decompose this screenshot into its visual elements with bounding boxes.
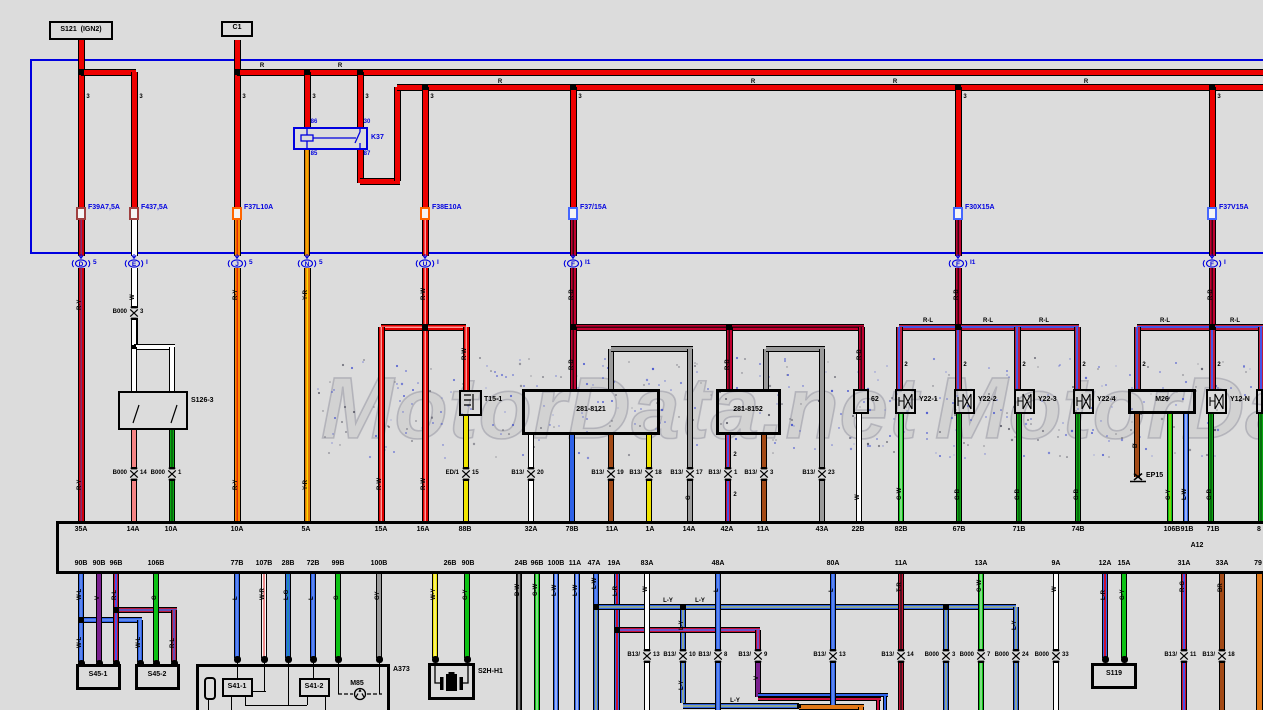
bus top label 42A at x727 (721, 526, 734, 533)
label Y22-3 (1038, 396, 1057, 403)
wire code L 72B (309, 596, 315, 600)
gray wire down to 14A (687, 349, 693, 521)
pin label 2 42A b (733, 492, 736, 498)
bus bottom label 47A at x594 (588, 560, 601, 567)
bus top label 88B at x465 (459, 526, 472, 533)
bus bottom label 100B at x556 (548, 560, 565, 567)
wire 11A brown below 8121 (608, 435, 614, 521)
svg-text:U: U (423, 261, 428, 268)
junction F37V column (1209, 324, 1215, 330)
splice B13/ x14 label (881, 652, 894, 658)
wire tip into S45 at x116 (113, 660, 120, 667)
valve symbol inside Y22-3 (1014, 389, 1035, 414)
splice B13/ x10 number (689, 652, 696, 658)
wire code T-R 11A (897, 582, 903, 592)
wire 83A white (644, 574, 650, 710)
junction 90B branch (78, 617, 84, 623)
wire down into T62 (858, 327, 865, 389)
wire tip 100B (376, 656, 383, 663)
splice B000 x14 (128, 467, 140, 481)
label F30X15A (965, 204, 995, 211)
wire 90B blue into S45-1 (78, 620, 84, 662)
wire code R-G 31A (1180, 581, 1186, 592)
wire 48A blue (715, 574, 721, 710)
connector I1 at F30X column (947, 254, 969, 270)
splice ED/1 x15 (460, 467, 472, 481)
bus bottom label 11A at x901 (895, 560, 907, 567)
splice B000 x24 number (1022, 652, 1029, 658)
wire below fuse F37V (dark red) (1209, 218, 1216, 256)
wire tip into S45 at x156 (153, 660, 160, 667)
wire 11A blue-white (574, 574, 580, 710)
label Y22-4 (1097, 396, 1116, 403)
bus top label 67B at x959 (953, 526, 966, 533)
wire 82B green below valve (898, 414, 904, 521)
bus top label 10A at x237 (231, 526, 244, 533)
wire label L-Y 2 (695, 598, 705, 604)
wire red horizontal to S45-2 (116, 607, 177, 613)
wire code L 77B (233, 596, 239, 600)
motor box M26 (1128, 389, 1196, 414)
wire code L-Y 683a (679, 620, 685, 630)
wire F37 feed down to fuse (570, 87, 577, 209)
wire to relay pin 86 (304, 72, 311, 127)
bus bottom label 107B at x264 (256, 560, 273, 567)
splice B13/ x8 number (724, 652, 727, 658)
module box 281-8121 (522, 389, 660, 435)
splice B13/ x17 number (696, 470, 703, 476)
wire label R-L 3 (1039, 318, 1049, 324)
pin label 3 at x237 (242, 94, 245, 100)
bus top label 91B at x1187 (1181, 526, 1194, 533)
wire 96B red into S45-1 core (115, 610, 117, 662)
splice B13/ x11 label (1164, 652, 1177, 658)
wire code Y-R col5A a (303, 290, 309, 300)
wire 47A blue upper (593, 574, 599, 605)
wire 78B blue below 8121 (569, 435, 575, 521)
connector E at 14A column label (146, 259, 148, 266)
partial box right edge (1256, 389, 1263, 414)
wire 26B yellow into S2H-H1 (432, 574, 438, 658)
splice B13/ x17 label (670, 470, 683, 476)
bus top label 22B at x858 (852, 526, 865, 533)
wire R-L down to Y22-1 blue core (898, 327, 900, 389)
wire 11A maroon (898, 574, 904, 710)
wire branch down to fuse F437 (131, 72, 138, 209)
label M26 (1155, 396, 1169, 403)
T15-1 inner marks (459, 390, 482, 416)
wire 10A green below S126-3 (169, 430, 175, 521)
bus bottom label 33A at x1222 (1216, 560, 1229, 567)
label S2H-H1 (478, 668, 503, 675)
relay box K37 (293, 127, 368, 150)
junction C1 bus (234, 69, 240, 75)
horn symbol inside S2H-H1 (428, 663, 475, 700)
wire pink down at 758 (755, 630, 761, 651)
splice B13/ x18 brown label (1202, 652, 1215, 658)
wire to T15-1 box (463, 327, 470, 390)
wire tip 26B (432, 656, 439, 663)
wire code G 106B (152, 595, 158, 600)
wire label R-L 1 (923, 318, 933, 324)
splice B13/ x17 (684, 467, 696, 481)
wire code L 80A (829, 588, 835, 592)
wire pink down at 758 core (757, 630, 759, 651)
connector box C1 (221, 21, 253, 37)
wire F30X feed down to fuse (955, 87, 962, 209)
wire 96B green-white (534, 574, 540, 710)
wire 11A maroon crossing L-Y (898, 600, 904, 614)
label F38E10A (432, 204, 462, 211)
wire F37 connector to junction (570, 268, 577, 327)
bus top label 5A at x306 (302, 526, 311, 533)
wire 100B into A373 (376, 574, 382, 658)
label S121 (IGN2) (60, 26, 101, 33)
splice B000 x1 label (151, 470, 165, 476)
junction F37 feed (570, 84, 576, 90)
wire 83A white crossing L-Y (644, 600, 650, 614)
wire 47A blue-yellow lower (593, 607, 599, 710)
watermark MotorData.net right (935, 359, 1263, 459)
svg-text:F: F (571, 261, 575, 268)
splice B13/ x8 (712, 649, 724, 663)
wire tip 12A (1102, 656, 1109, 663)
relay pin 86 (311, 119, 318, 125)
svg-text:F: F (1210, 261, 1214, 268)
wire 12A blue-red into S119 core (1104, 574, 1106, 658)
wire 14A pink below S126-3 (131, 430, 137, 521)
wire 31A red-blue core (1183, 574, 1185, 710)
bus bottom label 19A at x614 (608, 560, 621, 567)
junction S121 branch (78, 69, 84, 75)
wire code G 99B (334, 595, 340, 600)
valve box Y12-N (1206, 389, 1227, 414)
valve symbol inside Y22-4 (1073, 389, 1094, 414)
wire 12A blue-red into S119 (1102, 574, 1108, 658)
wire code R-L branch (170, 638, 176, 648)
wire 80A blue crossing L-Y (830, 600, 836, 614)
pin line below rounded box (208, 698, 209, 710)
junction relay 86 feed (304, 69, 310, 75)
wire R-L down to Y22-4 blue core (1076, 327, 1078, 389)
splice B000 x33 number (1062, 652, 1069, 658)
valve symbol inside Y22-1 (895, 389, 916, 414)
white wire left branch into S126-3 (131, 347, 137, 391)
wire pink pair corner down (876, 700, 880, 710)
junction 96B branch (113, 607, 119, 613)
connector I1 at F37 column (562, 254, 584, 270)
label Y22-2 (978, 396, 997, 403)
bus bottom label 96B at x537 (531, 560, 544, 567)
splice B13/ x3 number (770, 470, 773, 476)
inner wire 99B to M85 (338, 658, 339, 694)
wire code W-Y 26B (431, 588, 437, 600)
splice B000 x24 (1010, 649, 1022, 663)
wire code L-W 11A (573, 585, 579, 596)
wire code R-B into T62 (857, 349, 863, 360)
junction F30X feed (955, 84, 961, 90)
relay pin 87 (364, 151, 371, 157)
wire 32A white below 8121 (528, 435, 534, 521)
bus bottom label 26B at x450 (444, 560, 457, 567)
wire 1A yellow below 8121 (646, 435, 652, 521)
splice B000 x1 number (178, 470, 181, 476)
bus bottom label 79 at x1258 (1254, 560, 1262, 567)
label Y12-N (1230, 396, 1250, 403)
splice B13/ x1 label (708, 470, 721, 476)
junction L-Y orange (797, 704, 801, 708)
bus bottom label 83A at x647 (641, 560, 654, 567)
wire 19A blue-red lower (614, 630, 620, 710)
bus bottom label 31A at x1184 (1178, 560, 1191, 567)
ground symbol EP15 (1129, 473, 1147, 484)
wire code V 90B (95, 596, 101, 600)
relay K37 coil and contact (293, 127, 368, 150)
svg-text:N: N (305, 261, 310, 268)
gray wire up from 8152 (763, 349, 769, 389)
splice B13/ x13 second label (813, 652, 826, 658)
wire R-L horizontal Y22 group (899, 324, 1079, 331)
wire F37V feed down to fuse (1209, 87, 1216, 209)
wire tip 15A (1121, 656, 1128, 663)
label A373 (393, 666, 410, 673)
splice B000 x7 (975, 649, 987, 663)
splice B13/ x23 label (802, 470, 815, 476)
junction white split (132, 345, 136, 349)
wire 96B red into S45-1 (113, 610, 119, 662)
splice B13/ x20 (525, 467, 537, 481)
bus top label 71B at x1213 (1207, 526, 1220, 533)
fuse F30X 15A (953, 207, 963, 220)
splice B13/ x23 number (828, 470, 835, 476)
pin label 2 Y22-1 (904, 362, 907, 368)
wire code L-Y 683b (679, 680, 685, 690)
wire code L-W 47A (592, 578, 598, 589)
bus bottom label 12A at x1105 (1099, 560, 1112, 567)
label F37/15A (580, 204, 607, 211)
connector N at 5A column label (319, 259, 323, 266)
connector D at 35A column label (93, 259, 97, 266)
gray wire up from 8121 (608, 349, 614, 389)
label F37V15A (1219, 204, 1249, 211)
relay pin 85 (311, 151, 318, 157)
pin label 3 at x360 (365, 94, 368, 100)
wire 67B green below valve (956, 414, 962, 521)
wire R-L down to M26 (1134, 327, 1141, 389)
bus bottom label 11A at x575 (569, 560, 581, 567)
wire 22B white below T62 (856, 414, 862, 521)
splice B000 x1 (166, 467, 178, 481)
wire main red bus lower (397, 84, 1263, 91)
splice B13/ x9 label (738, 652, 751, 658)
wire code W-L 90B a (77, 589, 83, 600)
inner wire 77B to S41-1 (237, 658, 238, 678)
wire 19A blue-red upper core (616, 574, 618, 628)
pin label 3 at x307 (312, 94, 315, 100)
wire code R-B col F37 (569, 289, 575, 300)
wire code R-W T15-1 (462, 348, 468, 360)
splice B13/ x10 (677, 649, 689, 663)
wire R-L down to Y12-N (1209, 327, 1216, 389)
wire L-Y down at 683 (680, 607, 686, 703)
wire code L 48A (714, 588, 720, 592)
wire L-Y horizontal (596, 604, 1016, 610)
wire 79 orange right edge (1256, 574, 1263, 710)
wire R-L down at right edge blue core (1260, 327, 1262, 389)
wire code W 22B (855, 494, 861, 500)
wire R-L down at right edge (1258, 327, 1263, 389)
wire label R lower bus 1 (498, 79, 502, 85)
wire S121 to fuse F39A (78, 40, 85, 209)
motor symbol M85 (336, 686, 384, 702)
wire 99B into A373 (335, 574, 341, 658)
bus bar A12 rectangle (56, 521, 1263, 574)
wire 96B red to junction (113, 574, 119, 610)
wire below fuse F37 (dark red) (570, 218, 577, 256)
bus bottom label 80A at x833 (827, 560, 840, 567)
bus top label 82B at x901 (895, 526, 908, 533)
wire label R upper bus 1 (260, 63, 264, 69)
wire code W-L 90B b (77, 637, 83, 648)
wire 19A blue-red upper (614, 574, 620, 628)
wire below right edge box (1258, 414, 1263, 521)
wire code R-Y col10A b (233, 480, 239, 490)
inner wire 100B to M85 (379, 658, 380, 694)
valve symbol inside Y12-N (1206, 389, 1227, 414)
wire below fuse F437 (white) (131, 218, 138, 256)
wire 77B into A373 (234, 574, 240, 658)
label 281-8152 (733, 406, 763, 413)
wire 16A column (red) (422, 268, 429, 521)
wire code R-Y col35A a (77, 300, 83, 310)
connector I1 at F37 column label (585, 259, 590, 266)
bus top label 11A at x763 (757, 526, 769, 533)
wire R-L down to Y22-4 (1074, 327, 1081, 389)
wire code G-W 13A (977, 580, 983, 592)
inner wire 107B down (264, 658, 265, 691)
switch box S45-1 (76, 664, 121, 690)
wire tip into S45 at x81 (78, 660, 85, 667)
splice B000 x7 label (960, 652, 974, 658)
label S41-2 (305, 683, 324, 690)
splice B13/ x13 second number (839, 652, 846, 658)
module box 281-8152 (716, 389, 781, 435)
wire 106B green into S45-2 (153, 574, 159, 662)
wire label R lower bus 3 (1084, 79, 1088, 85)
junction L-Y at 946 (943, 604, 949, 610)
bus top label 11A at x612 (606, 526, 618, 533)
svg-text:E: E (132, 261, 137, 268)
splice B13/ x3 label (744, 470, 757, 476)
splice B13/ x19 (605, 467, 617, 481)
control unit box A373 (196, 664, 390, 710)
pin label 3 at x1212 (1217, 94, 1220, 100)
wire code L-W 100B (552, 585, 558, 596)
wire code W-L branch (136, 637, 142, 648)
wire code G-Y 90B (463, 589, 469, 600)
splice B13/ x8 label (698, 652, 711, 658)
wire F37V connector to junction (1209, 268, 1216, 327)
svg-text:F: F (956, 261, 960, 268)
bus top label 74B at x1078 (1072, 526, 1085, 533)
splice B13/ x13 second (827, 649, 839, 663)
wire 28B into A373 (285, 574, 291, 658)
wire 19A blue-red lower core (616, 630, 618, 710)
splice B000 x14 label (113, 470, 127, 476)
white wire right branch into S126-3 (169, 347, 175, 391)
label T15-1 (484, 396, 502, 403)
wire tip into S45 at x140 (137, 660, 144, 667)
splice B13/ x18 brown number (1228, 652, 1235, 658)
white wire splice to split (131, 318, 137, 347)
junction F37V feed (1209, 84, 1215, 90)
wire code G-B 74B (1074, 489, 1080, 500)
wire tip into S45 at x99 (96, 660, 103, 667)
bus top label 35A at x81 (75, 526, 88, 533)
inner pin S41-1 a (231, 697, 232, 710)
wire code G-Y 15A (1120, 589, 1126, 600)
wire L-Y down at 946 (943, 607, 949, 710)
wire label R-L 4 (1160, 318, 1170, 324)
wire code R-B into 8121 (569, 359, 575, 370)
fuse F37V 15A (1207, 207, 1217, 220)
bus bottom label 72B at x313 (307, 560, 320, 567)
wire R-L horizontal Y22 group blue core (899, 326, 1079, 328)
junction F37 column (570, 324, 576, 330)
inner pin S41-1 b (245, 697, 246, 705)
junction L-Y at 683 (680, 604, 686, 610)
wire tip 107B (261, 656, 268, 663)
wire code R-Y col35A b (77, 480, 83, 490)
relay pin 30 (364, 119, 371, 125)
wire code W col14A (130, 294, 136, 300)
valve box Y22-1 (895, 389, 916, 414)
label S45-2 (148, 671, 167, 678)
wire code W 83A (643, 586, 649, 592)
bus bottom label 100B at x379 (371, 560, 388, 567)
splice B13/ x9 (752, 649, 764, 663)
connector D at 35A column (70, 254, 92, 270)
wire 5A column (orange-yellow) (304, 268, 311, 521)
splice B000 x3 on white wire number (140, 309, 143, 315)
pin label 2 M26 (1142, 362, 1145, 368)
wire 15A column (red) (378, 327, 385, 521)
pin label 3 at x81 (86, 94, 89, 100)
wire label L-Y bottom (730, 698, 740, 704)
wire label L-Y 1 (663, 598, 673, 604)
valve box Y22-2 (954, 389, 975, 414)
splice ED/1 x15 number (472, 470, 479, 476)
bus top label 1A at x650 (646, 526, 655, 533)
label F37L10A (244, 204, 273, 211)
wire code R-B into 8152 (725, 359, 731, 370)
wire relay 87 up to lower bus (394, 87, 401, 181)
pin label 3 at x573 (578, 94, 581, 100)
bus top label 14A at x689 (683, 526, 696, 533)
wire tip 99B (335, 656, 342, 663)
wire relay 87 horizontal (360, 178, 400, 185)
wire code G-Y 106B (1166, 489, 1172, 500)
wire orange bottom bar (799, 704, 864, 710)
wire 72B into A373 (310, 574, 316, 658)
splice B13/ x13 white label (627, 652, 640, 658)
wire code R-W col15A (377, 478, 383, 490)
wire 80A blue (830, 574, 836, 710)
wire red branch S121 bus (81, 69, 136, 76)
splice B000 x3 second number (952, 652, 955, 658)
wire relay pin 87 down (357, 150, 364, 183)
wire code R-W col16A b (421, 478, 427, 490)
